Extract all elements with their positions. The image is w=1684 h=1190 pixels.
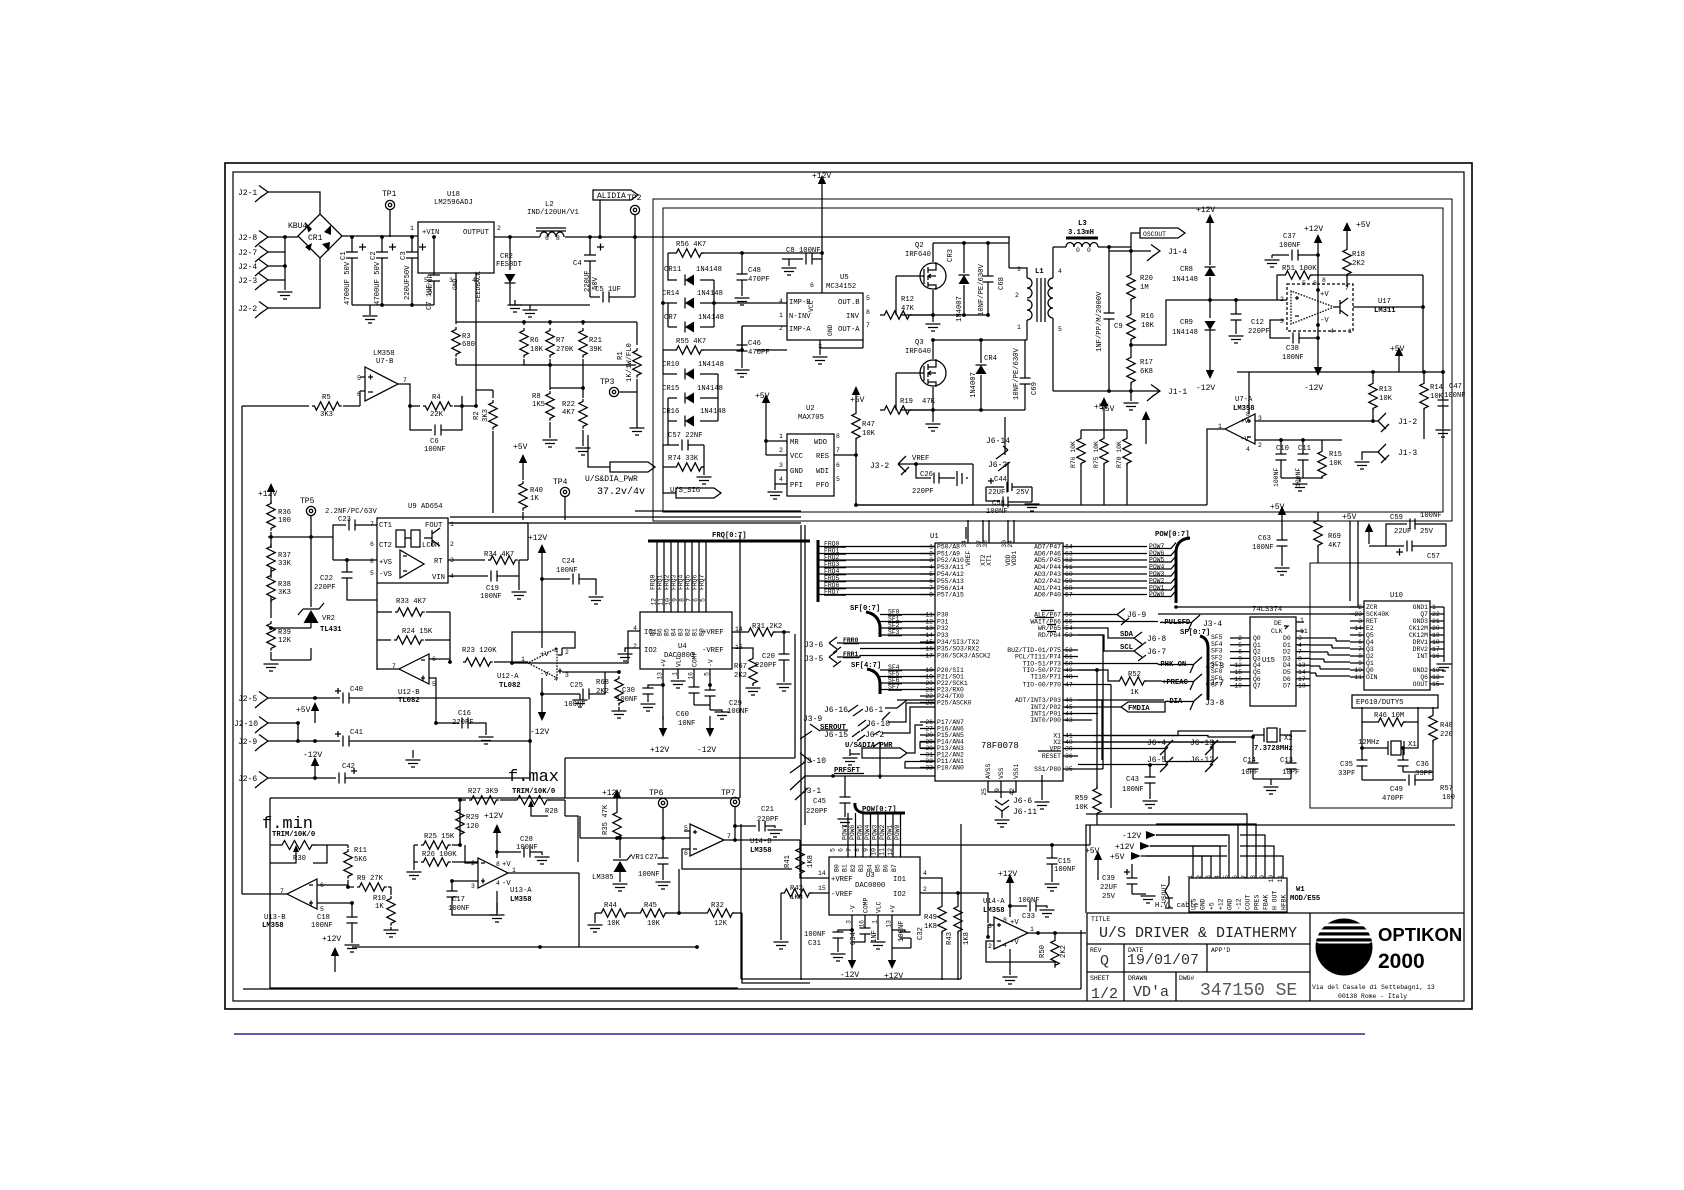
svg-text:C19: C19 [486,585,499,593]
net flag USOUT vertical [1165,876,1169,908]
svg-text:P25/ASCK0: P25/ASCK0 [937,700,972,707]
svg-text:C9: C9 [1114,323,1123,331]
svg-text:B2: B2 [685,628,692,636]
svg-text:C3: C3 [400,251,408,260]
svg-text:TP2: TP2 [627,194,642,203]
svg-text:H OUT: H OUT [1272,891,1279,910]
svg-text:C11: C11 [1298,445,1311,453]
svg-text:GND: GND [790,468,803,476]
connector J2-10 [255,717,268,734]
capacitor C48 470PF [737,253,748,296]
svg-text:R38: R38 [278,581,291,589]
svg-text:R14: R14 [1430,384,1443,392]
svg-text:TP7: TP7 [721,789,736,798]
svg-text:R48: R48 [1440,722,1453,730]
svg-text:270K: 270K [556,346,574,354]
svg-text:22UF: 22UF [988,489,1005,497]
svg-text:VPP: VPP [1049,746,1061,753]
capacitor C1 4700UF 50V [346,237,358,305]
svg-text:8: 8 [836,433,840,440]
svg-text:U15: U15 [1262,657,1275,665]
svg-text:C59: C59 [1390,514,1403,522]
svg-text:2: 2 [497,225,501,232]
svg-text:TP3: TP3 [600,378,615,387]
svg-text:PFO: PFO [816,482,829,490]
svg-text:C49: C49 [1390,786,1403,794]
box EP610/DUTY5 [1352,695,1438,708]
svg-text:470PF: 470PF [748,276,770,284]
svg-text:J1-4: J1-4 [1168,248,1187,257]
connector J1-1 [1147,385,1160,402]
svg-text:LM358: LM358 [983,907,1005,915]
capacitor C22 220PF [333,537,377,600]
svg-text:FRQ1: FRQ1 [657,574,664,590]
svg-text:100NF: 100NF [480,593,502,601]
svg-text:8: 8 [679,598,686,602]
svg-text:R10: R10 [373,895,386,903]
svg-text:1M: 1M [1140,284,1149,292]
svg-text:51: 51 [1065,654,1073,661]
svg-text:4: 4 [1246,446,1250,453]
svg-text:100NF: 100NF [986,508,1008,516]
svg-text:TITLE: TITLE [1091,916,1110,923]
svg-text:1: 1 [450,521,454,528]
svg-text:SCK40K: SCK40K [1366,611,1389,618]
svg-text:11: 11 [925,612,933,619]
svg-text:COUT: COUT [1245,894,1252,910]
svg-text:D7: D7 [1283,683,1291,690]
net -PHK ON / J3-3 [1078,663,1158,665]
svg-text:VCC: VCC [790,453,804,461]
test point TP7 [730,797,739,806]
svg-text:CR4: CR4 [984,355,997,363]
svg-text:IO1: IO1 [893,876,906,884]
svg-text:220PF: 220PF [757,816,779,824]
svg-text:53: 53 [1065,632,1073,639]
svg-text:10: 10 [871,848,878,856]
svg-text:+12V: +12V [1304,225,1323,234]
ground above rail [508,305,523,312]
svg-text:10: 10 [665,598,672,606]
svg-text:17: 17 [925,653,933,660]
svg-text:100NF: 100NF [1282,354,1304,362]
svg-text:1N4148: 1N4148 [700,408,726,416]
wire row y838 [580,816,684,838]
connector J2-5 [255,692,268,709]
fmin section box [270,535,795,988]
svg-text:R74 33K: R74 33K [668,455,699,463]
svg-text:5: 5 [700,598,707,602]
net SCL / J6-7 [1078,635,1134,651]
svg-text:LM358: LM358 [510,896,532,904]
svg-text:LM311: LM311 [1374,307,1396,315]
svg-text:+V: +V [540,651,549,659]
svg-text:3: 3 [1017,266,1021,273]
-12V U12A [541,678,543,700]
svg-text:1N4148: 1N4148 [698,361,724,369]
-12V down arrow U4 [706,716,714,737]
svg-text:B1: B1 [692,628,699,636]
svg-text:C31: C31 [808,940,821,948]
FRQ0 drop to U4 [656,541,658,612]
svg-text:B4: B4 [671,628,678,636]
svg-text:+12: +12 [1218,898,1225,910]
svg-text:GND2: GND2 [1413,667,1429,674]
svg-text:220PF: 220PF [1248,328,1270,336]
svg-text:3: 3 [779,462,783,469]
svg-text:25: 25 [981,788,988,796]
svg-text:5: 5 [370,570,374,577]
svg-text:C2: C2 [370,251,378,260]
svg-text:1: 1 [929,544,933,551]
net flag FMDIA [1078,706,1121,708]
+12V arrow U3 [891,930,893,948]
connector J1-2 [1378,413,1389,432]
svg-text:4: 4 [923,870,927,877]
svg-text:CR7: CR7 [664,314,677,322]
svg-text:-V: -V [708,659,715,667]
connector J2-7 [255,246,268,263]
svg-text:R1: R1 [617,351,625,360]
svg-text:62: 62 [1065,557,1073,564]
svg-text:N-INV: N-INV [789,313,811,321]
svg-text:OUT.B: OUT.B [838,299,860,307]
svg-text:C29: C29 [729,700,742,708]
ground VR2 [264,664,279,671]
svg-text:1N4148: 1N4148 [1172,276,1198,284]
svg-text:1K/1W/FL0: 1K/1W/FL0 [626,343,634,382]
svg-text:R55 4K7: R55 4K7 [676,338,706,346]
connector J6-6 [995,800,1009,811]
svg-text:J6-2: J6-2 [865,731,884,740]
svg-text:R69: R69 [1328,533,1341,541]
svg-text:CLK: CLK [1271,628,1283,635]
svg-text:3K3: 3K3 [482,409,490,422]
test point TP4 [560,487,569,496]
resistor R8 1K5 [549,365,551,390]
svg-text:MC34152: MC34152 [826,283,856,291]
svg-text:FES8DT: FES8DT [496,261,523,269]
svg-text:ALIDIA: ALIDIA [597,192,626,201]
ground U14A [1009,949,1011,975]
svg-text:FRQ7: FRQ7 [699,574,706,590]
svg-text:P53/A11: P53/A11 [937,564,964,571]
svg-text:R25 15K: R25 15K [424,833,455,841]
svg-text:1: 1 [779,312,783,319]
svg-text:VR2: VR2 [322,615,335,623]
svg-text:R67: R67 [734,663,747,671]
svg-text:U/S: U/S [1191,898,1198,910]
svg-text:7: 7 [836,447,840,454]
oscillator section box outer [653,199,1452,521]
svg-text:C20: C20 [762,653,775,661]
svg-text:Q3: Q3 [1366,646,1374,653]
svg-text:J2-8: J2-8 [238,234,257,243]
svg-text:1K8: 1K8 [807,855,815,868]
svg-text:Via del Casale di Settebagni,: Via del Casale di Settebagni, 13 [1312,984,1435,991]
capacitor C6 100NF [410,406,462,436]
svg-text:1K5: 1K5 [532,401,545,409]
FRQ3 drop to U4 [677,541,679,612]
svg-text:VLC: VLC [876,901,883,913]
-12V U17 [1314,355,1322,376]
svg-text:-V: -V [540,671,549,679]
svg-text:11: 11 [658,598,665,606]
svg-text:47: 47 [1065,682,1073,689]
ground C9 rail [1130,391,1132,401]
svg-text:C40: C40 [350,686,363,694]
ground below U1 [1041,775,1043,800]
svg-text:R68: R68 [596,679,609,687]
comparator U17 LM311 [1287,284,1353,331]
svg-text:C24: C24 [562,558,575,566]
bus FRQ[0:7] vertical [817,540,820,602]
svg-text:VREF: VREF [965,550,972,566]
wire U12A feedback [512,632,619,672]
svg-text:VR1: VR1 [631,854,644,862]
IC U3 DAC0800 [829,857,920,915]
FRQ2 drop to U4 [670,541,672,612]
svg-text:U/S&DIA_PWR: U/S&DIA_PWR [585,475,638,484]
svg-text:C38: C38 [1286,345,1299,353]
svg-text:4K7: 4K7 [1328,542,1341,550]
svg-text:PRES: PRES [1254,894,1261,910]
U1 right vertical drops [1078,635,1111,808]
wire fmax net [460,800,578,862]
svg-text:CT2: CT2 [379,542,392,550]
svg-text:P54/A12: P54/A12 [937,571,964,578]
svg-text:8: 8 [929,592,933,599]
svg-text:P52/A10: P52/A10 [937,557,964,564]
svg-text:U3: U3 [866,872,875,880]
svg-text:W1: W1 [1296,886,1305,894]
svg-text:L3: L3 [1078,220,1087,228]
rail y372 [1237,368,1443,372]
svg-text:2K2: 2K2 [596,688,609,696]
svg-text:6: 6 [693,598,700,602]
IC U5 MC34152 [787,293,863,340]
svg-text:U12-A: U12-A [497,673,519,681]
svg-text:C47: C47 [1449,383,1462,391]
svg-text:R40: R40 [530,487,543,495]
wire ALE row / J6-9 [1078,614,1117,616]
long mid wires [450,511,801,523]
svg-text:INT: INT [1416,653,1428,660]
svg-text:+12V: +12V [528,534,547,543]
wire to flag [550,388,610,467]
svg-text:+V: +V [1240,418,1249,426]
svg-text:14: 14 [818,870,826,877]
svg-text:TP5: TP5 [300,497,315,506]
svg-text:RET: RET [1366,618,1378,625]
svg-text:6: 6 [838,848,845,852]
-12V arrow U3 [851,930,853,948]
svg-text:TRIM/10K/0: TRIM/10K/0 [272,831,315,839]
connector J1-3 [1378,444,1389,463]
wire r16 junction to comparator [1053,300,1284,391]
svg-text:-12V: -12V [303,751,322,760]
svg-text:C63: C63 [1258,535,1271,543]
svg-text:FRQ0: FRQ0 [650,574,657,590]
svg-text:C30: C30 [622,687,635,695]
svg-text:1K8: 1K8 [924,923,937,931]
svg-text:DAC0800: DAC0800 [855,882,885,890]
svg-text:COMP: COMP [692,651,699,667]
svg-text:-V: -V [1010,939,1019,947]
wire +VS [333,559,377,561]
svg-text:R2: R2 [473,411,481,420]
svg-text:+12V: +12V [484,812,503,821]
svg-text:J6-7: J6-7 [1147,648,1166,657]
svg-text:FRQ[0:7]: FRQ[0:7] [712,532,747,540]
svg-text:4: 4 [554,676,558,683]
svg-text:E2: E2 [1366,625,1374,632]
svg-text:16: 16 [925,646,933,653]
svg-text:220UF: 220UF [584,270,592,292]
svg-text:CR10: CR10 [662,361,679,369]
svg-text:RT: RT [434,558,443,566]
svg-text:Q6: Q6 [1420,674,1428,681]
capacitor C19 100NF [448,571,519,582]
svg-text:FRQ6: FRQ6 [692,574,699,590]
svg-text:10K: 10K [1379,395,1393,403]
svg-text:8: 8 [556,235,560,242]
svg-text:C8 100NF: C8 100NF [786,247,821,255]
svg-text:P36/SCK3/ASCK2: P36/SCK3/ASCK2 [937,653,991,660]
svg-text:R13: R13 [1379,386,1392,394]
svg-text:CR15: CR15 [662,385,679,393]
svg-text:ON/OF: ON/OF [427,275,434,294]
svg-text:C18: C18 [317,914,330,922]
wire top rail resistors [456,322,637,365]
svg-text:R21: R21 [589,337,602,345]
svg-text:C37: C37 [1283,233,1296,241]
svg-text:100NF: 100NF [311,922,333,930]
svg-text:22UF: 22UF [1100,884,1117,892]
svg-text:C43: C43 [1126,776,1139,784]
svg-text:C21: C21 [761,806,774,814]
svg-text:J3-8: J3-8 [1205,699,1224,708]
svg-text:CR3: CR3 [947,249,955,262]
svg-text:10NF: 10NF [678,720,695,728]
connector J1-4 [1147,245,1160,262]
svg-text:R35 47K: R35 47K [602,804,610,835]
test point TP3 [609,387,618,396]
svg-text:2: 2 [779,447,783,454]
svg-text:-VREF: -VREF [702,647,724,655]
FRQ4 drop to U4 [684,541,686,612]
svg-text:19/01/07: 19/01/07 [1127,952,1199,969]
svg-text:AD0/P40: AD0/P40 [1034,592,1061,599]
svg-text:PFI: PFI [790,482,803,490]
svg-text:INT0/P00: INT0/P00 [1030,717,1061,724]
svg-text:22UF: 22UF [1394,528,1411,536]
connector J2-9 [255,735,268,752]
svg-text:SF[0:7]: SF[0:7] [1180,629,1210,637]
svg-text:LM2596ADJ: LM2596ADJ [434,199,473,207]
wire IO1 [512,631,640,663]
ground U2 [775,470,787,490]
svg-text:54: 54 [1065,625,1073,632]
svg-text:C15: C15 [1058,858,1071,866]
svg-text:-VREF: -VREF [831,891,853,899]
svg-text:FBAK: FBAK [1263,894,1270,910]
svg-text:100NF: 100NF [1122,786,1144,794]
svg-text:J2-2: J2-2 [238,305,257,314]
svg-text:-V: -V [1320,317,1329,325]
svg-text:3: 3 [1280,318,1284,325]
svg-text:R8: R8 [532,393,541,401]
svg-text:C57 22NF: C57 22NF [668,432,703,440]
regulator U18 LM2596ADJ [418,222,494,273]
svg-text:37.2v/4v: 37.2v/4v [597,486,645,498]
svg-text:2: 2 [923,886,927,893]
svg-text:1K: 1K [375,903,384,911]
svg-text:DE: DE [1274,620,1282,627]
svg-text:10K: 10K [530,346,544,354]
svg-text:C45: C45 [813,798,826,806]
svg-text:+5V: +5V [1100,405,1115,414]
IC U2 MAX705 [787,434,834,496]
svg-text:TIO-00/P70: TIO-00/P70 [1023,682,1062,689]
net -DIA / J3-8 [1078,699,1164,701]
svg-text:L1: L1 [1035,268,1044,276]
svg-text:33PF: 33PF [1415,770,1432,778]
test point TP6 [658,798,667,807]
svg-text:AVSS: AVSS [985,763,992,779]
svg-text:+V: +V [890,905,897,913]
svg-text:9: 9 [672,598,679,602]
svg-text:J3-9: J3-9 [803,715,822,724]
svg-text:R22: R22 [562,401,575,409]
wire U7B [360,377,410,406]
svg-text:0: 0 [1076,247,1080,254]
svg-text:25V: 25V [1102,893,1116,901]
svg-text:C1: C1 [340,251,348,260]
OPTIKON logo [1312,919,1462,1001]
inner sheet frame [233,172,1464,1001]
svg-text:GND: GND [827,324,834,336]
IC U4 DAC0800 [640,612,732,669]
svg-text:220PF: 220PF [755,662,777,670]
svg-text:J6-10: J6-10 [866,720,890,729]
svg-text:7: 7 [727,833,731,840]
svg-text:CR1: CR1 [308,234,323,243]
svg-text:U12-B: U12-B [398,689,420,697]
wire cap bottom rail [352,305,434,315]
svg-text:FMDIA: FMDIA [1128,705,1150,713]
svg-text:4: 4 [779,298,783,305]
svg-text:C35: C35 [1340,761,1353,769]
svg-text:R12: R12 [901,296,914,304]
svg-text:C46: C46 [748,340,761,348]
svg-text:3.13mH: 3.13mH [1068,229,1094,237]
svg-text:RES: RES [816,453,829,461]
svg-text:R43: R43 [946,932,954,945]
svg-text:OSCOUT: OSCOUT [1143,231,1166,238]
svg-text:VSS: VSS [998,767,1005,779]
capacitor C57b [1369,541,1446,552]
svg-text:J2-5: J2-5 [238,695,257,704]
svg-text:R3: R3 [462,333,471,341]
svg-text:OOUT: OOUT [1413,681,1429,688]
svg-text:1: 1 [1017,324,1021,331]
svg-text:P57/A15: P57/A15 [937,592,964,599]
svg-text:B6: B6 [657,628,664,636]
wire vref rail [856,504,1207,506]
wire caps common + ground [413,698,530,778]
svg-text:HFBK: HFBK [1281,894,1288,910]
